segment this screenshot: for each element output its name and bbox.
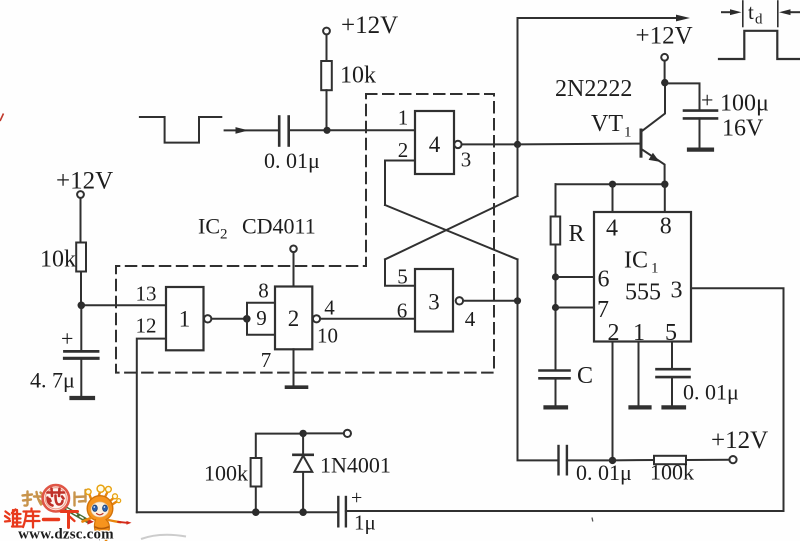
wire: resistor to input node (326, 90, 328, 130)
wire: 555 pin4 (612, 184, 614, 212)
svg-text:IC: IC (198, 214, 220, 239)
terminal +12V collector (661, 54, 668, 61)
wire: gate2 input bracket (247, 303, 275, 335)
watermark char pian (piece) halo (75, 490, 86, 506)
ground bar 100u (689, 148, 712, 152)
wire: node to gate4 pin1 (327, 129, 415, 131)
svg-text:VT: VT (591, 111, 623, 137)
terminal +12V top center (323, 28, 330, 35)
capacitor 0.01u trigger plate right (566, 446, 568, 474)
arrowhead of output line (676, 15, 690, 22)
wire: gate2 output to gate3 pin6 (320, 318, 415, 320)
td dimension tick right (777, 1, 779, 27)
wire: input arrow line to capacitor (225, 129, 279, 131)
svg-text:+12V: +12V (56, 168, 113, 195)
svg-text:+12V: +12V (341, 12, 398, 39)
svg-text:4: 4 (465, 307, 476, 331)
svg-text:4. 7μ: 4. 7μ (30, 368, 75, 393)
capacitor 4.7u plate top (65, 350, 99, 353)
mascot body (94, 520, 109, 536)
wire: VCC rail above 555 (556, 183, 665, 185)
wire: diode top lead (302, 433, 304, 454)
node: gate3 output junction (514, 297, 521, 304)
watermark weikuyixia (red) (5, 509, 78, 528)
svg-text:6: 6 (397, 299, 408, 323)
td left arrow (722, 11, 734, 13)
wire: pin5 cap to ground (671, 377, 673, 405)
magnifier lens (43, 485, 69, 511)
wire: C to ground (555, 378, 557, 405)
svg-text:2N2222: 2N2222 (555, 76, 632, 102)
svg-text:10k: 10k (340, 63, 376, 89)
svg-text:www.dzsc.com: www.dzsc.com (18, 527, 114, 541)
ground bar pin1 (631, 405, 650, 409)
wire: base line from junction to transistor (518, 143, 642, 146)
terminal +12V trigger (729, 456, 736, 463)
wire: 4.7u to ground (80, 358, 82, 396)
node: junction at 10k/input (323, 127, 330, 134)
wire: 555 pin8 (664, 184, 666, 212)
capacitor C plate top (540, 369, 570, 372)
wire: node to gate1 pin13 (81, 304, 166, 306)
svg-text:+12V: +12V (711, 427, 768, 454)
wire: rail down to resistor R (555, 184, 557, 216)
svg-text:C: C (577, 363, 593, 389)
td pulse waveform (719, 31, 800, 59)
transistor Q VT1 base bar (640, 130, 643, 156)
resistor 10k (top) (321, 61, 332, 90)
watermark char zhao (find) white halo (23, 492, 43, 506)
ground bar pin5 (664, 405, 685, 409)
wire: cross diagonal A (385, 196, 518, 259)
capacitor 0.01u trigger plate left (557, 446, 559, 474)
svg-text:1μ: 1μ (354, 511, 376, 535)
capacitor 1u plate right (345, 497, 347, 526)
wire: capacitor to node (289, 129, 327, 131)
gate4 output bubble (454, 141, 461, 148)
NAND gate 3 body (415, 269, 453, 332)
faint gray arc bottom-left (141, 535, 186, 539)
capacitor 1u plate left (337, 497, 339, 526)
td dimension tick left (742, 1, 744, 27)
svg-text:+12V: +12V (636, 23, 693, 50)
svg-text:13: 13 (136, 282, 157, 306)
capacitor 100u plate top (684, 109, 717, 112)
mascot head (87, 496, 113, 522)
watermark char pian strokes (75, 490, 86, 506)
wire: vertical to gate3 output junction (517, 259, 519, 300)
wire: 100k to +12V terminal (686, 459, 729, 461)
svg-text:+: + (351, 487, 362, 509)
wire: diode bottom lead (302, 472, 304, 512)
svg-text:100k: 100k (650, 460, 694, 485)
node: pin4 junction (609, 181, 616, 188)
svg-text:5: 5 (397, 265, 408, 289)
stray mark bottom (591, 518, 594, 522)
op-amp U IC1 555 body (594, 212, 691, 342)
wire: to 555 pin6 (556, 276, 595, 278)
wire: 100k to feedback line (255, 487, 257, 513)
wire: node to 100u capacitor (665, 83, 700, 110)
svg-text:0. 01μ: 0. 01μ (264, 148, 320, 173)
node: pin7 junction (552, 304, 559, 311)
svg-text:d: d (755, 12, 763, 28)
wire: gate1 pin12 stub down to feedback (137, 339, 166, 513)
wire: gate1 output to junction (211, 318, 247, 320)
mascot antenna balls (97, 485, 104, 492)
wire: node down to capacitor 4.7u (80, 305, 82, 351)
wire: 100u to ground (699, 118, 701, 147)
mascot arm with dart (109, 520, 121, 522)
gate1 output bubble (204, 315, 211, 322)
node: pin6 junction (552, 273, 559, 280)
svg-text:4: 4 (429, 132, 441, 157)
wire: 555 pin2 down (612, 342, 614, 461)
svg-text:7: 7 (261, 348, 272, 372)
wire: gate3 pin5 stub (385, 259, 415, 285)
wire: gate4 pin2 stub (385, 161, 415, 206)
mascot mouth (97, 514, 104, 515)
node: gate1 output junction (243, 315, 251, 323)
svg-text:2: 2 (220, 227, 228, 243)
diode D 1N4001 cathode bar (293, 453, 312, 456)
capacitor 0.01u pin5 plate bottom (657, 376, 690, 379)
ground bar C (546, 405, 567, 409)
mascot legs (99, 535, 100, 541)
wire: feedback bottom left segment (137, 511, 338, 513)
svg-text:5: 5 (665, 320, 677, 346)
NAND gate 1 body (166, 287, 204, 350)
char xin (core) inside lens (48, 489, 65, 506)
svg-text:0. 01μ: 0. 01μ (576, 460, 632, 485)
magnifier red tip (88, 519, 95, 525)
svg-text:IC: IC (624, 248, 648, 274)
svg-text:1: 1 (651, 261, 659, 277)
svg-text:10k: 10k (40, 247, 76, 273)
red edge tick (0, 114, 4, 122)
wire: +12V terminal to collector node (664, 61, 666, 83)
svg-text:3: 3 (671, 278, 683, 304)
mascot left arm to handle (83, 518, 92, 522)
transistor VT1 collector (642, 83, 665, 131)
terminal open (reset input) (344, 430, 351, 437)
NAND gate 2 body (275, 287, 312, 350)
gate2 output bubble (313, 315, 320, 322)
svg-text:3: 3 (461, 148, 472, 172)
capacitor C plate bottom (540, 377, 570, 380)
resistor R (551, 217, 561, 245)
mascot belt (95, 527, 109, 529)
svg-text:1N4001: 1N4001 (320, 453, 391, 478)
wire: power terminal to gate2 top (293, 252, 295, 286)
node: 100k bottom junction (252, 508, 260, 516)
wire: 555 pin3 output feedback right (346, 288, 784, 511)
capacitor 0.01u input plate right (287, 117, 290, 146)
node: pin8 junction (661, 181, 668, 188)
mascot face (91, 502, 109, 517)
mascot antenna stalks (90, 492, 118, 506)
svg-text:2: 2 (398, 138, 409, 162)
wire: gate4 output to junction (462, 143, 518, 145)
svg-text:6: 6 (598, 267, 610, 293)
watermark char zhao strokes (23, 492, 43, 506)
transistor VT1 emitter (642, 150, 665, 185)
svg-text:1: 1 (633, 320, 645, 346)
svg-text:4: 4 (606, 216, 618, 242)
input pulse waveform (140, 117, 221, 143)
terminal IC2 power (290, 246, 297, 253)
svg-text:8: 8 (258, 279, 269, 303)
svg-text:9: 9 (256, 306, 267, 330)
wire: pin2 node to 100k (613, 459, 655, 461)
svg-text:4: 4 (324, 296, 335, 320)
dashed outline of IC2 CD4011 (L-shape) (116, 94, 494, 373)
capacitor 100u plate bottom (684, 117, 717, 120)
svg-text:R: R (569, 221, 585, 247)
wire: +12V to 10k left (80, 198, 82, 243)
gate3 output bubble (456, 297, 463, 304)
svg-text:3: 3 (428, 290, 440, 315)
svg-text:1: 1 (179, 307, 191, 332)
ground bar gate2 (287, 385, 307, 389)
arrowhead input (236, 127, 249, 134)
svg-text:2: 2 (608, 320, 620, 346)
diode D 1N4001 triangle (294, 456, 312, 472)
svg-text:100μ: 100μ (720, 91, 769, 117)
node: diode bottom junction (299, 508, 307, 516)
wire: R down chain (555, 245, 557, 371)
NAND gate 4 body (415, 111, 454, 174)
wire: 100k left top stub (256, 434, 303, 458)
svg-text:t: t (748, 0, 754, 24)
wire: cross diagonal B (385, 205, 518, 259)
resistor 10k (left) (76, 243, 86, 272)
svg-text:0. 01μ: 0. 01μ (683, 380, 739, 405)
svg-text:10: 10 (317, 324, 338, 348)
node: collector supply junction (661, 79, 668, 86)
svg-text:1: 1 (398, 106, 409, 130)
wire: gate3 junction down to bottom trigger line (518, 301, 559, 461)
svg-text:8: 8 (660, 214, 672, 240)
capacitor 4.7u plate bottom (65, 357, 99, 360)
magnifier handle (66, 509, 89, 522)
wire: 555 pin5 to capacitor (671, 342, 673, 370)
svg-text:2: 2 (288, 306, 300, 331)
svg-text:1: 1 (624, 125, 632, 141)
wire: gate3 output to junction (463, 300, 517, 302)
svg-text:12: 12 (136, 314, 157, 338)
wire: junction to open terminal (303, 432, 344, 434)
mascot eyes (93, 505, 98, 511)
svg-text:555: 555 (625, 280, 661, 306)
capacitor 0.01u pin5 plate top (657, 368, 690, 371)
svg-text:CD4011: CD4011 (242, 214, 316, 239)
node: gate4 output junction (514, 141, 521, 148)
wire: cross-couple vertical below gate4 junction (517, 144, 519, 196)
wire: gate2 bottom to ground (293, 349, 295, 385)
td right arrow (786, 11, 800, 13)
svg-text:+: + (61, 326, 73, 351)
emitter arrowhead (649, 153, 660, 162)
svg-text:+: + (701, 88, 713, 113)
node: diode top junction (299, 430, 306, 437)
capacitor 0.01u input plate left (278, 117, 281, 146)
wire: 555 pin1 to ground (638, 342, 640, 406)
terminal +12V left (77, 191, 84, 198)
node: pin2 trigger junction (609, 457, 616, 464)
resistor 100k (right) (654, 456, 686, 464)
svg-text:100k: 100k (204, 461, 248, 486)
wire: 10k to node (80, 272, 82, 306)
svg-text:16V: 16V (722, 116, 764, 142)
resistor 100k (left) (251, 458, 262, 487)
node: junction left bias (78, 302, 86, 310)
wire: trigger cap to pin2 node (567, 459, 613, 461)
wire: to 555 pin7 (556, 307, 595, 309)
ground bar 4.7u (72, 396, 94, 400)
wire: +12V to resistor 10k (326, 35, 328, 62)
wire: top output line with arrow (518, 18, 684, 144)
